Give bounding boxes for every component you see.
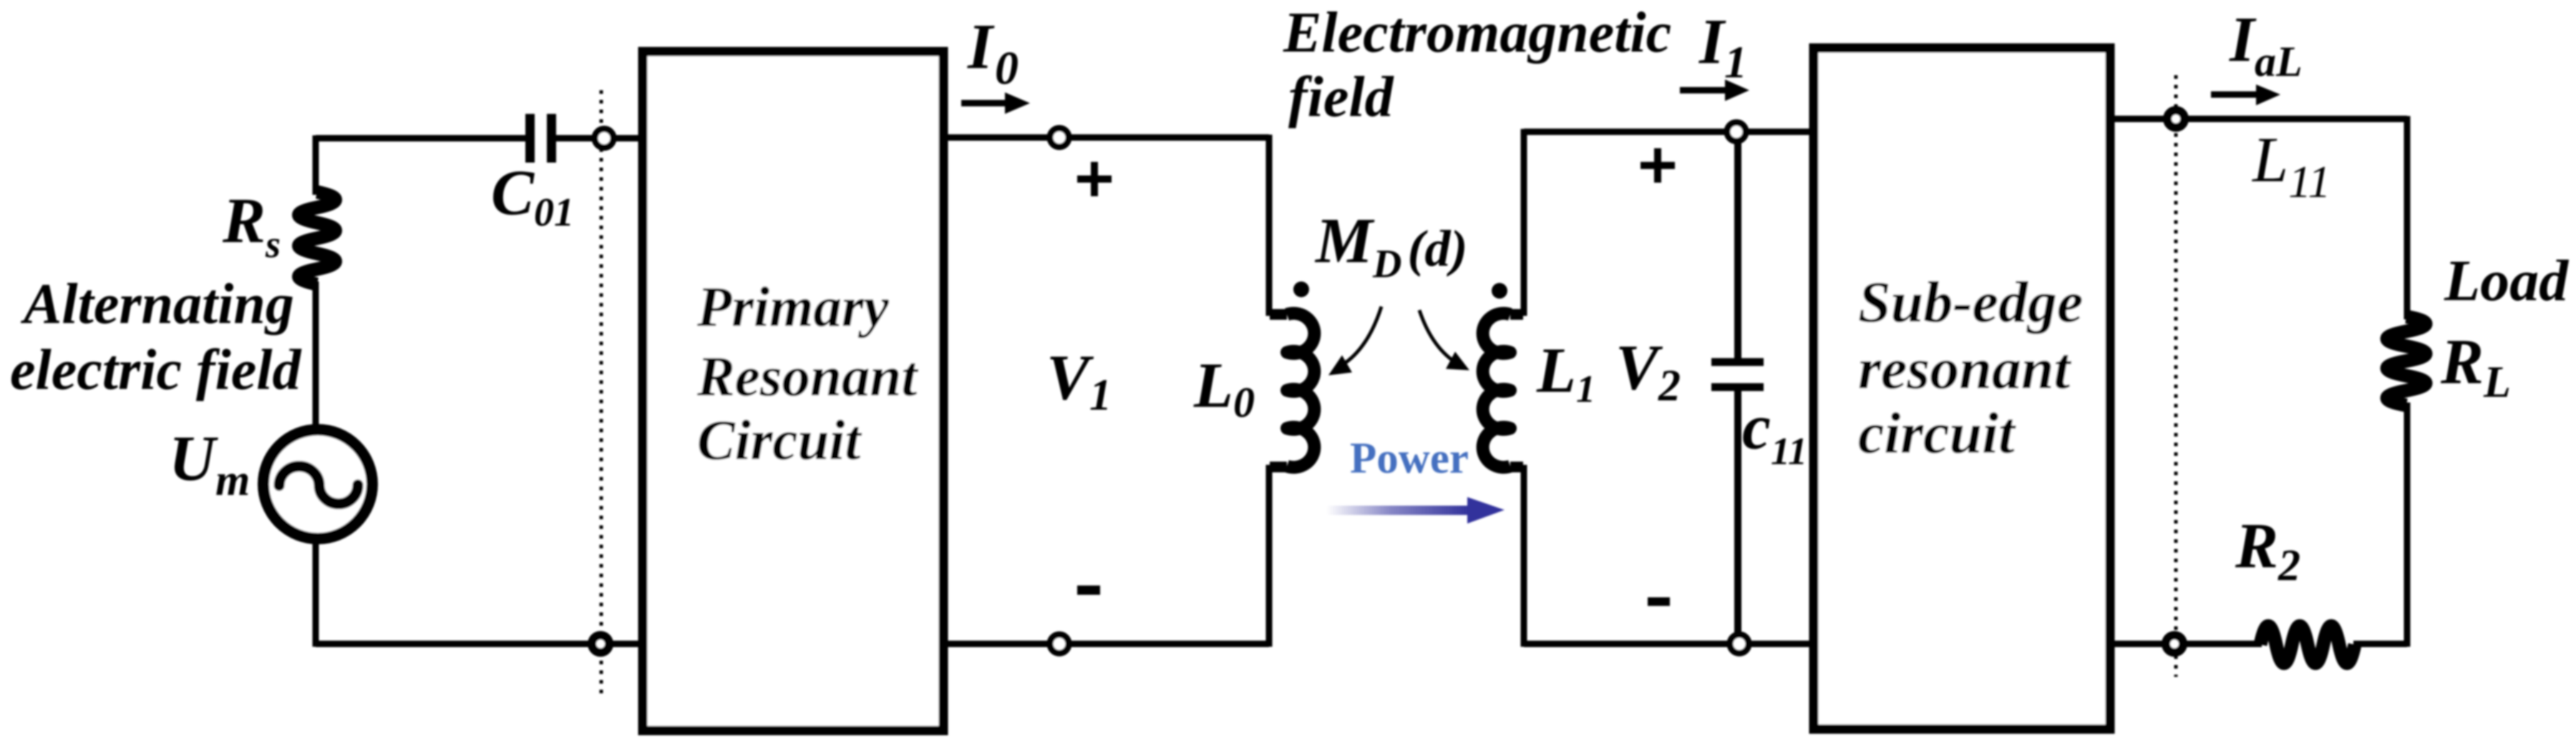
node V1 bottom (1050, 635, 1069, 653)
node secondary bottom (1730, 635, 1749, 653)
svg-text:Primary: Primary (696, 276, 890, 339)
node bottom-left (592, 635, 609, 652)
svg-text:electric field: electric field (10, 339, 301, 402)
svg-text:Resonant: Resonant (696, 346, 918, 408)
svg-text:circuit: circuit (1858, 400, 2016, 466)
label plus V1 (1077, 162, 1112, 196)
node V1 top (1050, 128, 1069, 147)
arrow I1 (1680, 87, 1726, 94)
wire right loop bottom (2110, 641, 2407, 647)
resistor R2 (2260, 626, 2355, 663)
label minus V2 (1648, 597, 1670, 606)
wire L1 vertical (1521, 129, 1527, 647)
source Um (263, 430, 372, 539)
wire L0 vertical (1266, 135, 1273, 647)
svg-text:Circuit: Circuit (697, 410, 862, 472)
capacitor C01 (525, 114, 535, 163)
capacitor c11 (1711, 358, 1764, 366)
wire c11 branch (1734, 132, 1741, 644)
dotted separation line right (2174, 75, 2178, 677)
coupling arrow right (1419, 310, 1462, 366)
box Primary Resonant Circuit (643, 52, 943, 731)
label minus V1 (1077, 586, 1100, 595)
svg-text:Load: Load (2444, 248, 2569, 313)
node top-left (595, 129, 613, 148)
svg-text:Electromagnetic: Electromagnetic (1283, 1, 1671, 64)
arrow I0 (961, 100, 1006, 107)
svg-text:Alternating: Alternating (20, 273, 294, 336)
box Sub-edge resonant circuit (1814, 48, 2110, 729)
wire V1 top (943, 135, 1269, 141)
svg-text:Sub-edge: Sub-edge (1858, 269, 2083, 334)
wire V1 bottom (943, 641, 1269, 647)
resistor RL (2387, 317, 2426, 405)
dot L1 (1492, 283, 1507, 299)
resistor Rs (299, 192, 336, 284)
svg-text:Power: Power (1350, 435, 1469, 483)
inductor L0 (1270, 314, 1287, 467)
wire secondary bottom (1524, 641, 1814, 647)
inductor L1 (1510, 314, 1523, 467)
arrow IaL (2211, 92, 2257, 98)
dot L0 (1293, 281, 1309, 297)
power arrow (1326, 506, 1467, 515)
wire left loop top (316, 135, 643, 142)
wire secondary top (1524, 129, 1814, 135)
node right bottom (2166, 635, 2183, 652)
coupling arrow left (1341, 307, 1381, 366)
wire right loop right vertical (2404, 116, 2411, 647)
wire left loop left vertical (313, 135, 319, 647)
wire left loop bottom (316, 641, 643, 647)
svg-text:resonant: resonant (1858, 336, 2071, 401)
node secondary top (1727, 122, 1746, 141)
node right top (2167, 110, 2184, 127)
label plus V2 (1641, 148, 1675, 183)
wire right loop top (2110, 116, 2407, 122)
svg-text:field: field (1288, 66, 1394, 129)
dotted separation line left (600, 90, 603, 697)
